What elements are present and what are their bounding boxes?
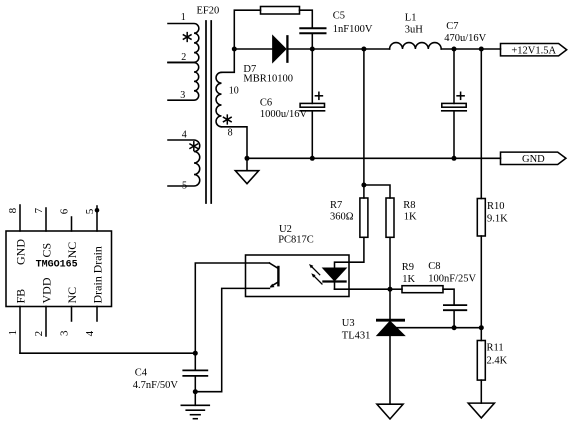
svg-text:GND: GND: [14, 239, 28, 265]
shunt regulator U3 TL431: [377, 320, 404, 335]
U2 phototransistor: [269, 263, 278, 288]
capacitor C6: [300, 49, 324, 158]
wire +12V rail down to R7/R8 node: [363, 49, 365, 185]
net tag +12V1.5A: [501, 44, 567, 57]
pin 5 top dot: [95, 208, 100, 213]
wire R8 bottom to feedback node: [389, 237, 391, 289]
svg-text:C4: C4: [135, 367, 148, 378]
net tag GND: [501, 152, 566, 165]
wire ground rail: [247, 157, 501, 159]
wire top rail (D7 cathode to L1): [289, 48, 390, 50]
inductor L1: [390, 43, 442, 49]
resistor R7: [360, 185, 368, 237]
svg-text:1: 1: [7, 330, 19, 336]
wire U2 emitter to C4 bottom node: [195, 288, 269, 391]
winding S1 (pins 10-8): [216, 72, 221, 127]
wire node A up to snubber resistor: [234, 10, 260, 49]
wire pin8 to ground rail: [222, 127, 248, 159]
wire C4 bottom node: [194, 377, 196, 392]
svg-text:L1: L1: [405, 13, 417, 24]
wire feedback node down to U3 cathode: [389, 289, 391, 319]
svg-text:+12V1.5A: +12V1.5A: [511, 46, 556, 57]
resistor R11: [477, 328, 485, 380]
wire R11 to ground: [480, 380, 482, 403]
svg-text:R9: R9: [402, 262, 414, 273]
ground symbol (R11): [468, 403, 494, 418]
svg-text:C8: C8: [428, 261, 440, 272]
ground symbol (U3): [377, 404, 403, 419]
svg-text:R10: R10: [487, 201, 505, 212]
op-to U2 PC817C body: [246, 255, 350, 297]
svg-text:CS: CS: [40, 243, 54, 258]
svg-text:8: 8: [228, 127, 233, 138]
wire top rail (D7 anode segment): [234, 48, 272, 50]
wire U3 anode to ground: [389, 335, 391, 404]
svg-text:1K: 1K: [404, 212, 417, 223]
svg-text:EF20: EF20: [197, 6, 220, 17]
svg-text:1nF100V: 1nF100V: [333, 24, 373, 35]
svg-text:470u/16V: 470u/16V: [444, 33, 486, 44]
svg-text:TL431: TL431: [342, 330, 371, 341]
polarity star winding P1: [183, 33, 191, 42]
svg-text:3: 3: [180, 90, 185, 101]
svg-text:1K: 1K: [402, 274, 415, 285]
wire pin10 to node A: [222, 49, 235, 72]
svg-text:4: 4: [84, 330, 96, 336]
capacitor C5: [300, 28, 325, 33]
svg-text:7: 7: [33, 207, 45, 213]
svg-text:Drain: Drain: [91, 246, 105, 273]
resistor R8: [386, 198, 394, 237]
U2 LED: [323, 268, 345, 289]
C6 plus sign: [315, 92, 322, 99]
svg-text:MBR10100: MBR10100: [243, 73, 293, 84]
polarity star winding S1: [224, 115, 232, 124]
svg-text:100nF/25V: 100nF/25V: [428, 274, 476, 285]
svg-text:3: 3: [59, 330, 71, 336]
pin 5 lead: [96, 206, 98, 231]
winding P1 (pins 1-2): [168, 24, 199, 63]
U2 light arrows: [309, 264, 322, 284]
transformer T1 core EF20: [206, 21, 211, 203]
pin 1 lead: [19, 307, 21, 354]
svg-text:R11: R11: [487, 343, 504, 354]
capacitor C8: [444, 305, 466, 310]
svg-text:R7: R7: [330, 200, 342, 211]
winding P3 (pins 4-5): [168, 140, 200, 186]
pin 6 lead: [71, 217, 73, 231]
pin 3 lead: [71, 307, 73, 322]
wire snubber resistor to C5: [300, 10, 313, 27]
wire FB pin1 to C4 top node: [20, 352, 195, 354]
wire +12V rail down to R10: [480, 49, 482, 199]
svg-text:VDD: VDD: [40, 277, 54, 303]
svg-text:R8: R8: [403, 200, 415, 211]
pin 8 lead: [19, 205, 21, 231]
svg-text:NC: NC: [65, 242, 79, 259]
svg-text:PC817C: PC817C: [278, 235, 314, 246]
svg-text:U3: U3: [342, 318, 355, 329]
svg-text:10: 10: [229, 86, 239, 97]
svg-text:5: 5: [182, 180, 187, 191]
svg-text:8: 8: [7, 207, 19, 213]
polarity star winding P3: [190, 142, 198, 151]
pin 2 lead: [45, 307, 47, 337]
resistor R snubber: [261, 7, 300, 15]
svg-text:2: 2: [181, 52, 186, 63]
svg-text:Drain: Drain: [91, 276, 105, 303]
svg-text:NC: NC: [65, 287, 79, 304]
wire R10 bottom to ref node: [480, 236, 482, 328]
svg-text:2: 2: [33, 331, 45, 337]
svg-text:U2: U2: [279, 224, 292, 235]
wire C5 to top rail: [311, 34, 313, 49]
wire U2 LED cathode to feedback node: [335, 288, 391, 290]
svg-text:C7: C7: [446, 21, 458, 32]
pin 4 lead: [96, 307, 98, 322]
svg-text:6: 6: [59, 208, 71, 214]
wire R9 to C8: [443, 289, 454, 304]
wire top rail (L1 to +12V tag): [441, 48, 500, 50]
ground symbol (transformer pin 8): [235, 158, 258, 183]
C7 plus sign: [457, 92, 464, 99]
svg-text:C6: C6: [260, 97, 272, 108]
svg-text:360Ω: 360Ω: [330, 212, 354, 223]
IC U1 TMG0165 body: [6, 231, 112, 307]
svg-text:3uH: 3uH: [405, 24, 424, 35]
svg-text:C5: C5: [333, 11, 345, 22]
wire U3 ref to divider node: [395, 327, 481, 329]
svg-text:9.1K: 9.1K: [487, 213, 508, 224]
svg-text:1000u/16V: 1000u/16V: [260, 109, 308, 120]
capacitor C7: [442, 49, 466, 158]
svg-text:4: 4: [182, 130, 187, 141]
svg-text:2.4K: 2.4K: [487, 355, 508, 366]
wire node to R8 top: [364, 185, 390, 198]
winding P2 (pins 2-3): [168, 63, 199, 101]
wire C4 top node: [194, 353, 196, 369]
wire C8 to ref node: [453, 311, 455, 328]
svg-text:5: 5: [84, 208, 96, 214]
svg-text:1: 1: [181, 12, 186, 23]
resistor R9: [390, 286, 443, 293]
svg-text:TMGO165: TMGO165: [36, 260, 78, 271]
capacitor C4: [183, 370, 207, 376]
wire R7 bottom to U2 LED anode: [335, 237, 364, 268]
svg-text:FB: FB: [14, 289, 28, 304]
resistor R10: [477, 199, 485, 237]
wire U2 collector to C4 top node: [195, 263, 269, 353]
earth ground symbol (C4): [181, 392, 209, 419]
diode D7: [273, 36, 288, 61]
pin 7 lead: [45, 208, 47, 231]
svg-text:GND: GND: [522, 154, 545, 165]
svg-text:4.7nF/50V: 4.7nF/50V: [133, 380, 179, 391]
